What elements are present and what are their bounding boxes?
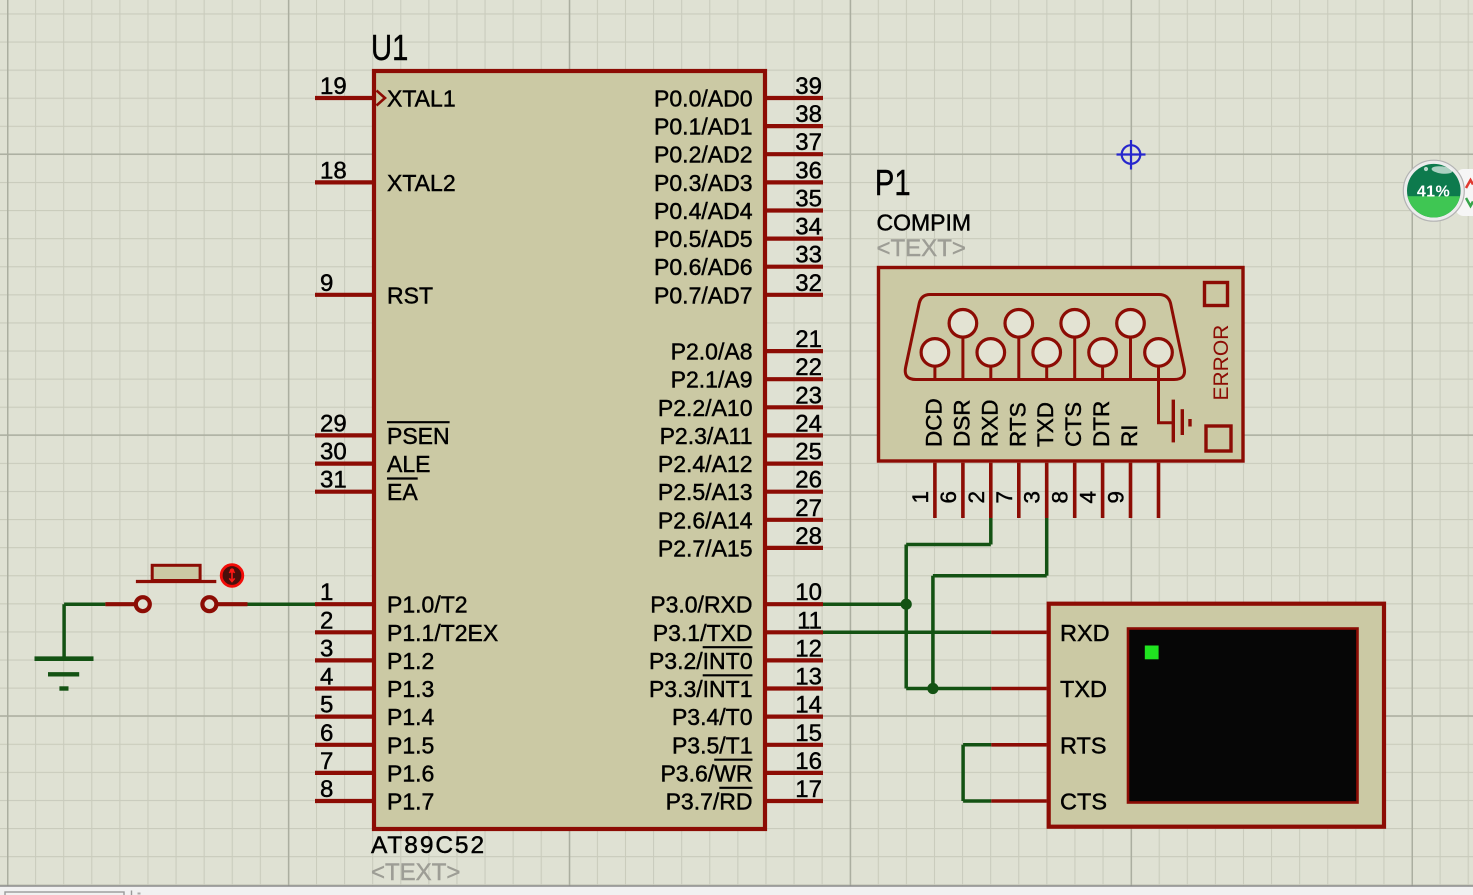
- svg-text:5: 5: [320, 692, 333, 719]
- svg-text:P3.1/TXD: P3.1/TXD: [653, 620, 753, 646]
- svg-text:33: 33: [795, 242, 822, 269]
- svg-text:RST: RST: [387, 282, 433, 308]
- svg-text:28: 28: [795, 523, 822, 550]
- svg-text:P1.6: P1.6: [387, 760, 434, 786]
- svg-text:9: 9: [1104, 491, 1129, 504]
- svg-text:RI: RI: [1117, 425, 1142, 448]
- svg-text:P3.4/T0: P3.4/T0: [672, 704, 753, 730]
- svg-text:PSEN: PSEN: [387, 423, 450, 449]
- svg-text:EA: EA: [387, 479, 418, 505]
- svg-text:34: 34: [795, 214, 822, 241]
- svg-text:P2.5/A13: P2.5/A13: [658, 479, 753, 505]
- svg-text:8: 8: [320, 776, 333, 803]
- svg-text:29: 29: [320, 410, 347, 437]
- svg-text:U1: U1: [371, 28, 408, 69]
- svg-text:36: 36: [795, 157, 822, 184]
- svg-text:P0.3/AD3: P0.3/AD3: [654, 170, 752, 196]
- svg-text:8: 8: [1048, 491, 1073, 504]
- svg-text:P2.6/A14: P2.6/A14: [658, 507, 753, 533]
- svg-text:38: 38: [795, 101, 822, 128]
- svg-text:P2.4/A12: P2.4/A12: [658, 451, 753, 477]
- svg-text:ALE: ALE: [387, 451, 430, 477]
- svg-text:P2.0/A8: P2.0/A8: [671, 339, 753, 365]
- svg-text:CTS: CTS: [1060, 789, 1107, 815]
- svg-text:4: 4: [1076, 491, 1101, 504]
- svg-text:P0.1/AD1: P0.1/AD1: [654, 114, 752, 140]
- svg-text:RTS: RTS: [1005, 402, 1030, 447]
- svg-text:39: 39: [795, 73, 822, 100]
- svg-text:P0.7/AD7: P0.7/AD7: [654, 282, 752, 308]
- svg-text:31: 31: [320, 467, 347, 494]
- svg-text:30: 30: [320, 439, 347, 466]
- svg-text:15: 15: [795, 720, 822, 747]
- svg-text:P3.6/WR: P3.6/WR: [660, 760, 752, 786]
- svg-text:P2.1/A9: P2.1/A9: [671, 367, 753, 393]
- svg-text:6: 6: [936, 491, 961, 504]
- svg-text:11: 11: [797, 607, 822, 634]
- svg-text:RXD: RXD: [977, 399, 1002, 447]
- svg-text:<TEXT>: <TEXT>: [371, 859, 460, 886]
- svg-text:XTAL2: XTAL2: [387, 170, 456, 196]
- svg-text:6: 6: [320, 720, 333, 747]
- svg-text:P2.3/A11: P2.3/A11: [660, 423, 753, 449]
- svg-text:AT89C52: AT89C52: [371, 832, 486, 859]
- svg-text:1: 1: [908, 491, 933, 504]
- svg-text:DSR: DSR: [949, 399, 974, 447]
- svg-text:P3.5/T1: P3.5/T1: [672, 732, 753, 758]
- svg-text:P1.5: P1.5: [387, 732, 434, 758]
- svg-text:DCD: DCD: [921, 398, 946, 447]
- svg-text:19: 19: [320, 73, 347, 100]
- svg-text:7: 7: [992, 491, 1017, 504]
- svg-text:P3.7/RD: P3.7/RD: [666, 789, 753, 815]
- svg-text:18: 18: [320, 157, 347, 184]
- svg-text:P1.2: P1.2: [387, 648, 434, 674]
- svg-text:P3.3/INT1: P3.3/INT1: [649, 676, 753, 702]
- svg-text:P2.2/A10: P2.2/A10: [658, 395, 753, 421]
- svg-text:P1: P1: [875, 163, 911, 204]
- svg-text:9: 9: [320, 270, 333, 297]
- svg-text:P0.2/AD2: P0.2/AD2: [654, 142, 752, 168]
- svg-text:P0.6/AD6: P0.6/AD6: [654, 254, 752, 280]
- svg-text:P1.7: P1.7: [387, 789, 434, 815]
- svg-text:TXD: TXD: [1060, 676, 1107, 702]
- svg-text:4: 4: [320, 664, 333, 691]
- svg-text:P0.4/AD4: P0.4/AD4: [654, 198, 753, 224]
- svg-text:3: 3: [1020, 491, 1045, 504]
- svg-text:RXD: RXD: [1060, 620, 1110, 646]
- svg-text:ERROR: ERROR: [1210, 325, 1233, 401]
- svg-text:RTS: RTS: [1060, 732, 1107, 758]
- svg-text:P1.0/T2: P1.0/T2: [387, 592, 468, 618]
- svg-text:16: 16: [795, 748, 822, 775]
- svg-text:21: 21: [795, 326, 822, 353]
- svg-text:32: 32: [795, 270, 822, 297]
- svg-text:DTR: DTR: [1089, 401, 1114, 447]
- svg-text:26: 26: [795, 467, 822, 494]
- svg-text:P0.0/AD0: P0.0/AD0: [654, 86, 752, 112]
- svg-text:3: 3: [320, 635, 333, 662]
- svg-text:13: 13: [795, 664, 822, 691]
- svg-text:P1.4: P1.4: [387, 704, 435, 730]
- svg-text:2: 2: [320, 607, 333, 634]
- svg-text:P3.2/INT0: P3.2/INT0: [649, 648, 753, 674]
- svg-text:41%: 41%: [1417, 183, 1450, 200]
- svg-text:2: 2: [964, 491, 989, 504]
- svg-text:23: 23: [795, 382, 822, 409]
- svg-text:COMPIM: COMPIM: [877, 210, 972, 236]
- svg-text:P0.5/AD5: P0.5/AD5: [654, 226, 752, 252]
- svg-text:7: 7: [320, 748, 333, 775]
- svg-text:P1.3: P1.3: [387, 676, 434, 702]
- svg-text:1: 1: [320, 579, 333, 606]
- svg-text:25: 25: [795, 439, 822, 466]
- svg-text:12: 12: [795, 635, 822, 662]
- svg-text:P2.7/A15: P2.7/A15: [658, 535, 753, 561]
- svg-text:XTAL1: XTAL1: [387, 86, 456, 112]
- svg-text:22: 22: [795, 354, 822, 381]
- svg-text:P3.0/RXD: P3.0/RXD: [650, 592, 752, 618]
- svg-text:10: 10: [795, 579, 822, 606]
- svg-text:24: 24: [795, 410, 822, 437]
- svg-text:27: 27: [795, 495, 822, 522]
- svg-text:35: 35: [795, 186, 822, 213]
- svg-text:CTS: CTS: [1061, 402, 1086, 447]
- svg-text:17: 17: [795, 776, 822, 803]
- svg-text:14: 14: [795, 692, 822, 719]
- svg-text:P1.1/T2EX: P1.1/T2EX: [387, 620, 498, 646]
- svg-text:37: 37: [795, 129, 822, 156]
- svg-text:TXD: TXD: [1033, 402, 1058, 447]
- svg-text:<TEXT>: <TEXT>: [877, 235, 966, 262]
